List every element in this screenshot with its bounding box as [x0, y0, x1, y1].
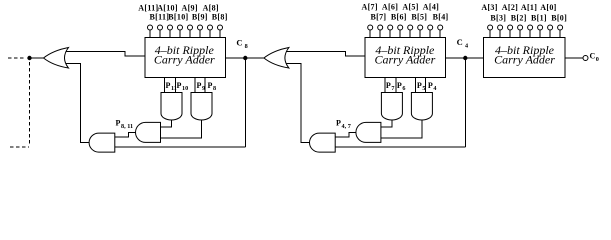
or-gate G1 (skip OR, block 11:8)	[44, 48, 69, 69]
terminal A[0]	[549, 30, 551, 38]
svg-text:A[10]: A[10]	[157, 4, 178, 13]
svg-text:P: P	[386, 81, 391, 90]
svg-text:P: P	[177, 81, 182, 90]
svg-text:P: P	[116, 119, 121, 128]
svg-text:P: P	[417, 81, 422, 90]
wire: box1 carry-in from C8 node	[225, 57, 243, 59]
terminal B[5]	[419, 30, 421, 38]
svg-text:A[4]: A[4]	[423, 3, 439, 12]
terminal B[6]	[399, 30, 401, 38]
svg-text:B[1]: B[1]	[531, 13, 547, 22]
svg-text:B[2]: B[2]	[511, 13, 527, 22]
and-gate G3 (group propagate P8,11)	[136, 122, 161, 142]
svg-text:0: 0	[596, 56, 599, 63]
svg-text:B[5]: B[5]	[411, 13, 427, 22]
wire: dashed carry continuation left	[8, 57, 26, 59]
and-gate G2 (skip AND, block 11:8)	[89, 133, 115, 152]
terminal A[1]	[529, 30, 531, 38]
svg-text:B[10]: B[10]	[168, 13, 188, 22]
wire: P4,7 gate output to AND2 top input	[335, 132, 356, 137]
adder U1 box (bits 11:8)	[145, 38, 225, 78]
input terminals block 1	[148, 25, 223, 38]
terminal A[6]	[389, 30, 391, 38]
terminal B[10]	[179, 30, 181, 38]
svg-text:A[6]: A[6]	[382, 3, 398, 12]
wire: OR2 top input from box2 carry-out	[286, 52, 365, 57]
svg-text:P: P	[208, 81, 213, 90]
wire: P9 from box1	[194, 78, 196, 93]
terminal B[4]	[439, 30, 441, 38]
svg-text:4: 4	[465, 42, 468, 49]
and-gate G8 (group propagate P4,7)	[356, 122, 381, 142]
svg-text:B[3]: B[3]	[490, 13, 506, 22]
wire: OR2 bottom input from AND2 output	[286, 64, 310, 143]
wire: OR1 top input from box1 carry-out	[66, 52, 145, 57]
svg-text:A[9]: A[9]	[182, 4, 198, 13]
svg-text:Carry Adder: Carry Adder	[494, 52, 555, 66]
svg-text:B[8]: B[8]	[212, 13, 228, 22]
svg-text:P: P	[397, 81, 402, 90]
node C8 junction dot	[243, 56, 247, 60]
wire: C8 down to skip bus	[244, 59, 246, 147]
terminal A[4]	[429, 30, 431, 38]
wire: box3 carry-in to C0 terminal	[565, 57, 583, 59]
wire: G9 output to P4,7-gate top input	[381, 120, 392, 128]
svg-text:P: P	[197, 81, 202, 90]
svg-text:9: 9	[202, 85, 205, 92]
and-gate G7 (skip AND, block 7:4)	[310, 133, 336, 152]
wire: G10 output to P4,7-gate bottom input	[381, 120, 422, 139]
terminal A[9]	[189, 30, 191, 38]
terminal C0	[583, 56, 588, 61]
terminal A[11]	[149, 30, 151, 38]
svg-text:A[1]: A[1]	[521, 3, 537, 12]
wire: C4 to box3 carry-out	[467, 57, 483, 59]
wire: C4 down to skip bus	[464, 59, 466, 147]
wire: dot to OR1 output	[30, 57, 44, 59]
terminal A[3]	[489, 30, 491, 38]
wire: dashed horizontal continuation bottom left	[10, 146, 29, 148]
terminal B[7]	[379, 30, 381, 38]
terminal A[5]	[409, 30, 411, 38]
terminal B[9]	[199, 30, 201, 38]
wire: bus from C4 to AND2 bottom input	[335, 146, 465, 148]
svg-text:B[7]: B[7]	[371, 13, 387, 22]
terminal B[11]	[159, 30, 161, 38]
and-gate G5 (P9·P8)	[191, 93, 212, 121]
svg-text:P: P	[166, 81, 171, 90]
node C4 junction dot	[463, 56, 467, 60]
svg-text:C: C	[457, 37, 463, 47]
svg-text:10: 10	[182, 85, 188, 92]
terminal B[8]	[219, 30, 221, 38]
wire: P11 from box1	[164, 78, 166, 93]
wire: P8 from box1	[204, 78, 206, 93]
svg-text:5: 5	[422, 85, 425, 92]
wire: bus from C8 to AND1 bottom input	[115, 146, 246, 148]
svg-text:B[6]: B[6]	[391, 13, 407, 22]
svg-text:4: 4	[433, 85, 436, 92]
svg-text:P: P	[336, 119, 341, 128]
wire: OR1 bottom input from AND1 output	[66, 64, 90, 143]
wire: P6 from box2	[395, 78, 397, 93]
svg-text:A[2]: A[2]	[502, 3, 518, 12]
svg-text:B[4]: B[4]	[433, 13, 449, 22]
terminal A[10]	[169, 30, 171, 38]
svg-text:Carry Adder: Carry Adder	[154, 52, 215, 66]
node C12 junction dot	[27, 56, 31, 60]
terminal A[2]	[509, 30, 511, 38]
wire: P4 from box2	[424, 78, 426, 93]
svg-text:C: C	[236, 38, 242, 48]
input terminals block 2	[368, 25, 443, 38]
wire: P5 from box2	[414, 78, 416, 93]
svg-text:A[3]: A[3]	[481, 3, 497, 12]
adder U3 box (bits 3:0)	[484, 38, 566, 78]
svg-text:B[9]: B[9]	[192, 13, 208, 22]
terminal B[0]	[559, 30, 561, 38]
svg-text:Carry Adder: Carry Adder	[375, 52, 436, 66]
svg-text:A[0]: A[0]	[540, 3, 556, 12]
svg-text:8, 11: 8, 11	[121, 123, 133, 130]
svg-text:6: 6	[402, 85, 405, 92]
svg-text:C: C	[590, 52, 596, 61]
and-gate G9 (P7·P6)	[381, 93, 402, 121]
wire: G4 output to P-gate top input	[161, 120, 172, 128]
wire: box2 carry-in from C4 node	[445, 57, 463, 59]
wire: P8,11 gate output to AND1 top input	[115, 132, 136, 137]
adder U2 box (bits 7:4)	[365, 38, 445, 78]
and-gate G4 (P11·P10)	[161, 93, 182, 121]
svg-text:8: 8	[245, 43, 248, 50]
wire: C8 to OR2 output	[247, 57, 264, 59]
terminal B[1]	[539, 30, 541, 38]
terminal A[8]	[209, 30, 211, 38]
svg-text:A[5]: A[5]	[402, 3, 418, 12]
svg-text:B[0]: B[0]	[551, 13, 567, 22]
input terminals block 3	[488, 25, 563, 38]
svg-text:7: 7	[391, 85, 394, 92]
and-gate G10 (P5·P4)	[411, 93, 432, 121]
svg-text:A[8]: A[8]	[203, 4, 219, 13]
wire: P7 from box2	[384, 78, 386, 93]
wire: dashed vertical continuation from C12 down	[29, 62, 31, 144]
svg-text:B[11]: B[11]	[150, 13, 170, 22]
or-gate G6 (skip OR, block 7:4)	[264, 48, 289, 69]
svg-text:4, 7: 4, 7	[342, 123, 351, 130]
terminal A[7]	[369, 30, 371, 38]
svg-text:P: P	[428, 81, 433, 90]
svg-text:A[11]: A[11]	[138, 4, 158, 13]
svg-text:8: 8	[213, 85, 216, 92]
svg-text:A[7]: A[7]	[362, 3, 378, 12]
terminal B[3]	[499, 30, 501, 38]
terminal B[2]	[519, 30, 521, 38]
wire: P10 from box1	[175, 78, 177, 93]
wire: G5 output to P-gate bottom input	[161, 120, 202, 139]
